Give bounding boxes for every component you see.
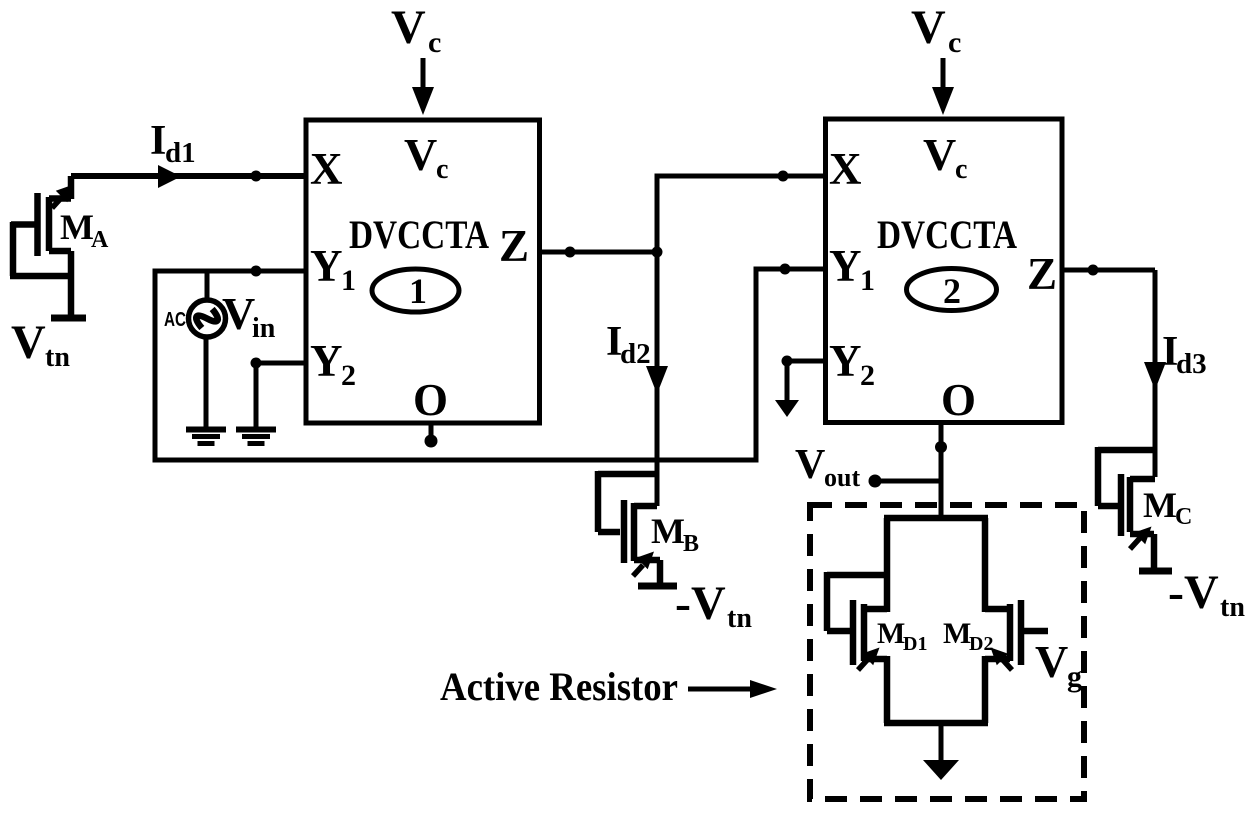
wire Vout tap (875, 479, 941, 484)
wire Id3 down to MC (1153, 270, 1158, 477)
svg-text:M: M (943, 617, 971, 650)
svg-text:M: M (60, 207, 94, 247)
wire Y1 (U1) (153, 269, 307, 274)
feedback wire Y1(U1) to Y1(U2) (155, 269, 756, 460)
svg-text:Y: Y (310, 336, 343, 386)
wire AC source top (205, 271, 210, 301)
current arrow Id1 (158, 165, 181, 188)
svg-text:tn: tn (45, 342, 70, 373)
svg-text:X: X (310, 144, 343, 194)
ground arrow below MD pair (939, 723, 944, 762)
DVCCTA block U2 box (826, 119, 1063, 423)
junction dot Y2 (U1) (251, 358, 262, 369)
wire AC source bottom (204, 336, 209, 429)
svg-text:c: c (955, 154, 967, 185)
svg-text:V: V (911, 1, 946, 54)
MC source arrow (1130, 538, 1140, 549)
active resistor dashed box (810, 505, 1084, 799)
svg-text:D2: D2 (969, 633, 993, 655)
DVCCTA U1 number ellipse (372, 269, 459, 312)
wire Z(U1) to X(U2) (657, 176, 823, 252)
wire Y2 (U1) to ground (254, 363, 259, 429)
transistor MD2 (985, 518, 1048, 723)
wire Y2 (U2) (787, 359, 823, 364)
junction dot Z (U1) b (652, 247, 663, 258)
current arrow Id3 (1144, 362, 1166, 390)
svg-text:V: V (391, 1, 426, 54)
svg-text:2: 2 (341, 359, 356, 392)
DVCCTA block U1 box (306, 120, 540, 423)
svg-text:AC: AC (164, 309, 186, 331)
svg-text:DVCCTA: DVCCTA (349, 212, 489, 257)
wire Z (U1) (540, 250, 657, 255)
MA drain arrow (52, 197, 62, 208)
svg-text:Z: Z (1027, 249, 1057, 299)
junction dot X (U2) (778, 171, 789, 182)
svg-text:V: V (222, 288, 255, 339)
svg-text:1: 1 (409, 271, 427, 311)
junction dot Y2 (U2) (782, 356, 793, 367)
svg-text:2: 2 (860, 359, 875, 392)
transistor MD1 (827, 518, 988, 723)
MD2 source arrow (1002, 659, 1012, 670)
svg-text:X: X (829, 144, 862, 194)
transistor MB (598, 471, 660, 584)
ground under Y2 (U1) (236, 427, 276, 447)
wire X input (U1) from MA drain (71, 173, 306, 179)
svg-text:-V: -V (675, 577, 726, 630)
AC sine glyph (193, 305, 221, 333)
DVCCTA U2 number ellipse (907, 269, 997, 311)
junction dot X (U1) (251, 171, 262, 182)
junction dot Z (U1) a (565, 247, 576, 258)
MB source arrow (633, 565, 643, 576)
wire O (U2) down (939, 422, 944, 518)
svg-text:V: V (795, 442, 825, 488)
wire Y1 (U2) (754, 267, 826, 272)
svg-text:Z: Z (499, 221, 529, 271)
AC source Vin (189, 300, 226, 337)
O pin stub (U1) (429, 423, 434, 436)
svg-text:1: 1 (341, 264, 356, 297)
wire Z (U2) (1062, 268, 1155, 273)
svg-text:-V: -V (1168, 566, 1219, 619)
svg-text:tn: tn (727, 603, 752, 634)
svg-text:d1: d1 (165, 137, 196, 169)
svg-text:O: O (413, 375, 448, 425)
transistor MC (1098, 447, 1155, 569)
MB source terminal bar (-Vtn) (638, 583, 677, 590)
svg-text:V: V (923, 129, 956, 180)
svg-text:M: M (1143, 485, 1177, 525)
MD pair bottom bar (884, 720, 988, 727)
Vout node dot (869, 475, 882, 488)
svg-text:V: V (11, 316, 46, 369)
svg-text:Y: Y (829, 336, 862, 386)
MC source terminal bar (-Vtn) (1139, 568, 1172, 575)
svg-text:c: c (428, 26, 441, 59)
svg-text:1: 1 (860, 264, 875, 297)
Vc supply arrow (U2) (941, 58, 946, 92)
svg-text:c: c (436, 154, 448, 185)
svg-text:C: C (1175, 504, 1192, 530)
svg-text:V: V (1035, 636, 1068, 687)
svg-text:Y: Y (829, 241, 862, 291)
svg-text:d2: d2 (620, 338, 651, 370)
svg-text:M: M (651, 511, 685, 551)
O pin dot (U1) (425, 435, 438, 448)
svg-text:Active Resistor: Active Resistor (440, 664, 678, 709)
svg-text:g: g (1067, 660, 1082, 693)
svg-text:Y: Y (310, 241, 343, 291)
transistor MA (10, 176, 71, 315)
svg-text:c: c (948, 26, 961, 59)
ground arrow at Y2 (U2) (785, 361, 790, 402)
Vc supply arrow (U1) (421, 58, 426, 92)
junction dot Z (U2) (1088, 265, 1099, 276)
svg-text:O: O (941, 375, 976, 425)
ground under AC source (186, 427, 226, 447)
svg-text:2: 2 (943, 271, 961, 311)
MA source terminal bar (Vtn) (51, 315, 86, 322)
svg-text:DVCCTA: DVCCTA (877, 212, 1017, 257)
svg-text:in: in (252, 313, 276, 344)
svg-text:B: B (683, 531, 699, 557)
junction dot Y1 (U1) (251, 266, 262, 277)
svg-text:A: A (91, 227, 109, 253)
wire Id2 branch down to MB (655, 252, 660, 506)
MD1 source arrow (858, 659, 868, 670)
junction dot O (U2) (935, 441, 947, 453)
wire Y2 (U1) (256, 361, 306, 366)
svg-text:out: out (824, 463, 860, 492)
junction dot Y1 (U2) (780, 264, 791, 275)
svg-text:V: V (404, 129, 437, 180)
svg-text:tn: tn (1220, 592, 1245, 623)
pointer arrow to active resistor (688, 687, 753, 692)
current arrow Id2 (646, 366, 668, 394)
svg-text:D1: D1 (903, 633, 927, 655)
svg-text:M: M (877, 617, 905, 650)
svg-text:I: I (150, 118, 166, 164)
svg-text:d3: d3 (1176, 348, 1207, 380)
